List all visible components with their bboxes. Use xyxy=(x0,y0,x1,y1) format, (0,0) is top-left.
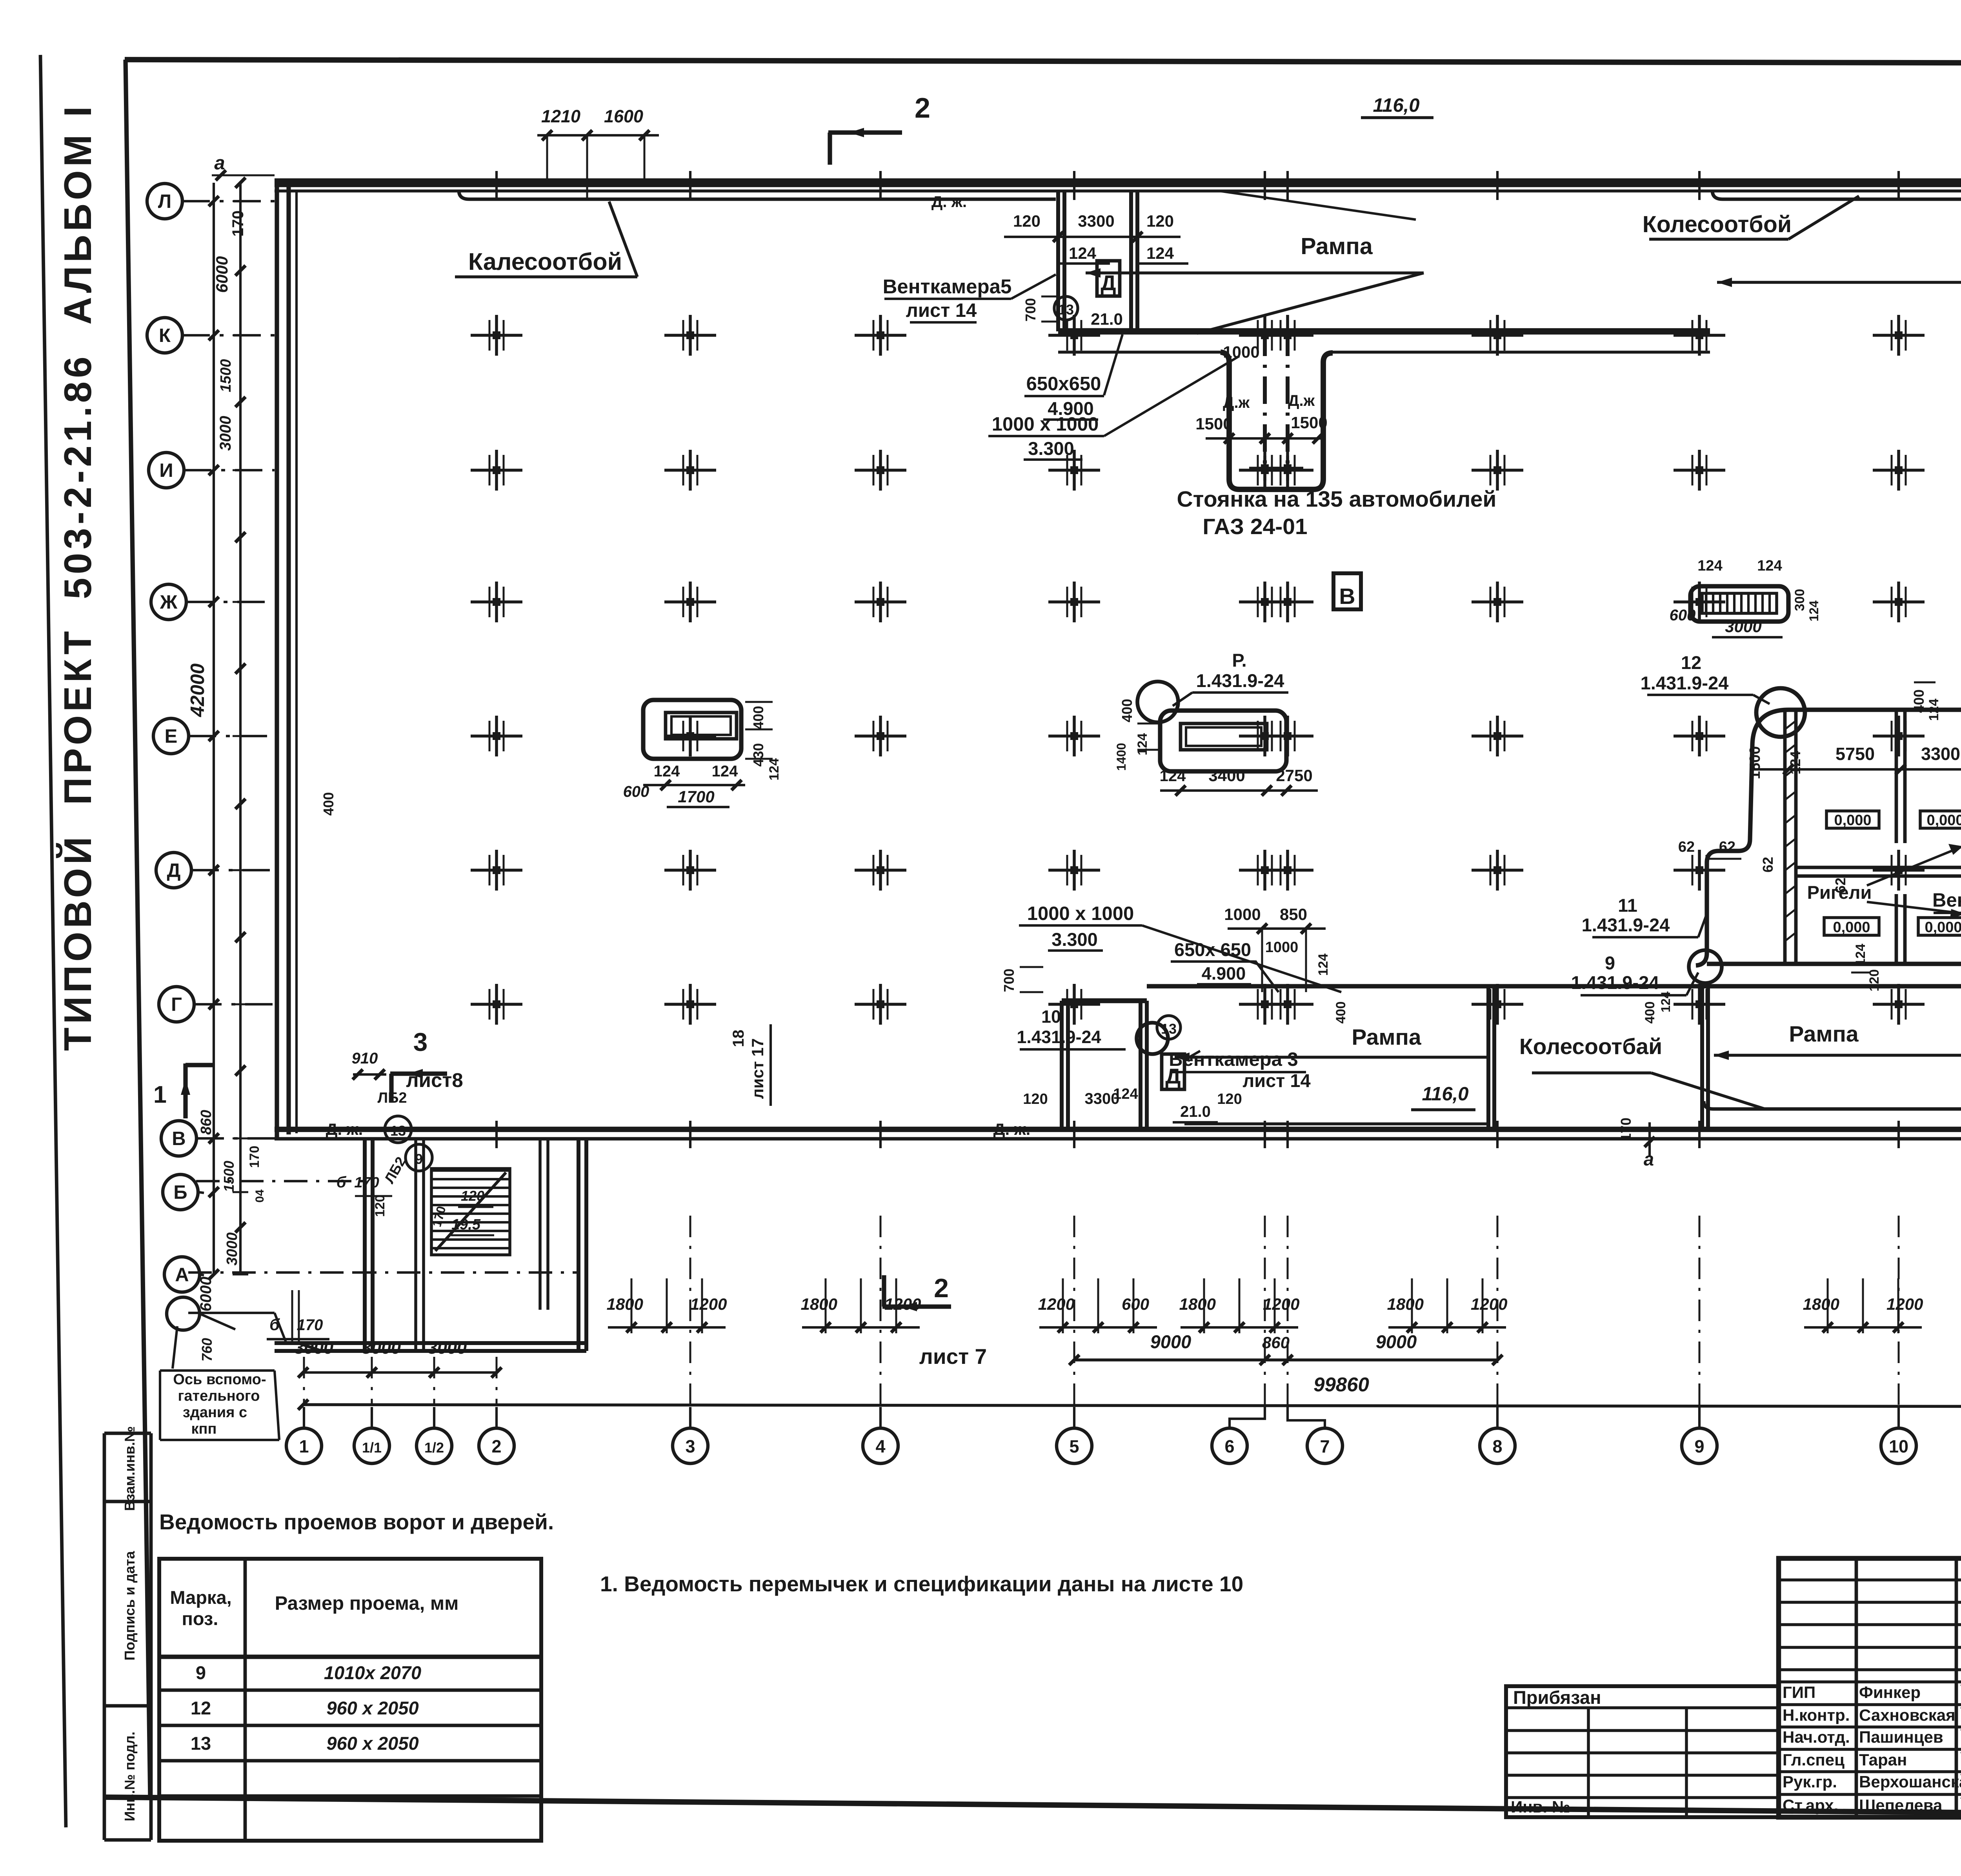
svg-text:4.900: 4.900 xyxy=(1202,963,1246,983)
svg-text:8: 8 xyxy=(1492,1436,1502,1456)
wheel guard line bottom xyxy=(1184,1101,1961,1124)
svg-text:Колесоотбой: Колесоотбой xyxy=(1643,211,1792,237)
svg-text:1210: 1210 xyxy=(541,106,580,126)
note text xyxy=(600,1572,1243,1596)
circle 13 vk5 xyxy=(1054,296,1078,320)
svg-text:Инв.№ подл.: Инв.№ подл. xyxy=(122,1732,138,1821)
wheel guard line top-left xyxy=(459,191,1056,199)
svg-text:лист 7: лист 7 xyxy=(919,1344,987,1369)
svg-text:960 х 2050: 960 х 2050 xyxy=(326,1733,418,1754)
svg-text:0,000: 0,000 xyxy=(1925,919,1961,936)
svg-text:Взам.инв.№: Взам.инв.№ xyxy=(122,1426,138,1511)
axis circle И left xyxy=(149,453,275,488)
bottom axis circles xyxy=(286,1428,1961,1463)
title block grid xyxy=(1779,1558,1961,1817)
svg-text:1200: 1200 xyxy=(1263,1295,1299,1313)
openings table xyxy=(159,1559,541,1841)
svg-text:1/1: 1/1 xyxy=(362,1440,382,1456)
island 3 top mid-right xyxy=(1690,586,1788,622)
island 2 dims xyxy=(1114,699,1318,796)
axis circle К left xyxy=(147,318,275,353)
svg-text:1. Ведомость перемычек и спе: 1. Ведомость перемычек и спецификации да… xyxy=(600,1572,1243,1596)
svg-text:Венткамера5: Венткамера5 xyxy=(883,275,1012,298)
svg-text:12: 12 xyxy=(191,1698,211,1718)
svg-text:3000: 3000 xyxy=(427,1338,467,1358)
svg-text:1000 х 1000: 1000 х 1000 xyxy=(1027,903,1134,924)
riveli bottom wall xyxy=(1707,962,1961,966)
svg-text:21.0: 21.0 xyxy=(1180,1103,1211,1120)
svg-text:6000: 6000 xyxy=(197,1277,215,1312)
svg-text:700: 700 xyxy=(1001,969,1017,992)
left dim lines xyxy=(209,178,248,1280)
left annex bottom wall xyxy=(275,1343,586,1351)
ventkamera 3 walls xyxy=(1062,1001,1147,1129)
left annex stair hatch xyxy=(431,1169,510,1255)
svg-text:ГАЗ 24-01: ГАЗ 24-01 xyxy=(1202,514,1307,539)
long dim line level2 left xyxy=(1069,1331,1503,1365)
svg-text:1.431.9-24: 1.431.9-24 xyxy=(1641,673,1729,693)
svg-text:1.431.9-24: 1.431.9-24 xyxy=(1196,670,1284,691)
svg-text:Калесоотбой: Калесоотбой xyxy=(468,248,622,275)
dim 21.0 vk5 xyxy=(1082,310,1133,329)
svg-text:13: 13 xyxy=(1058,302,1074,318)
svg-text:18: 18 xyxy=(730,1030,747,1047)
svg-text:850: 850 xyxy=(1280,905,1307,923)
svg-text:170: 170 xyxy=(1618,1118,1634,1141)
shaft labels xyxy=(1195,343,1327,444)
riveli lower dims xyxy=(1851,944,1882,992)
svg-text:1800: 1800 xyxy=(1179,1295,1216,1313)
svg-text:1000: 1000 xyxy=(1265,939,1299,956)
svg-text:3000: 3000 xyxy=(362,1338,401,1358)
label Dzh bottom wall xyxy=(326,1120,1031,1138)
riveli circle 9-11 xyxy=(1689,950,1722,983)
svg-text:120: 120 xyxy=(373,1195,387,1217)
label Kolesootboy top-right xyxy=(1220,191,1859,239)
dim 116.0 bottom xyxy=(1411,1083,1475,1110)
svg-text:124: 124 xyxy=(1807,600,1821,622)
riveli label xyxy=(1807,844,1961,919)
dim cluster axis10 xyxy=(1803,1278,1923,1333)
svg-text:120: 120 xyxy=(1013,212,1041,230)
svg-text:Финкер: Финкер xyxy=(1859,1683,1921,1701)
bottom ramp arrow right xyxy=(1714,1022,1961,1060)
island 2 callout xyxy=(1137,650,1288,722)
rotated list17 label xyxy=(730,1024,771,1106)
dims 120-3300-120 vk5 xyxy=(1004,212,1181,242)
svg-text:ТИПОВОЙ ПРОЕКТ 503-2-21.86: ТИПОВОЙ ПРОЕКТ 503-2-21.86 АЛЬБОМ I xyxy=(56,103,99,1051)
svg-text:1500: 1500 xyxy=(1195,414,1232,433)
svg-text:В: В xyxy=(172,1128,186,1149)
ramp wall x3800 xyxy=(1488,986,1494,1129)
dims b 170 col1 xyxy=(267,1290,329,1345)
svg-text:124: 124 xyxy=(1160,767,1186,785)
svg-text:124: 124 xyxy=(1697,558,1722,574)
dim 116.0 top xyxy=(1361,95,1433,118)
svg-text:124: 124 xyxy=(654,763,680,780)
island 1 dims xyxy=(623,702,782,807)
svg-text:Д. ж.: Д. ж. xyxy=(993,1120,1031,1138)
svg-text:Д: Д xyxy=(167,860,181,881)
svg-text:Г: Г xyxy=(171,994,182,1015)
svg-text:Венткамера4: Венткамера4 xyxy=(1932,890,1961,911)
svg-text:1200: 1200 xyxy=(1471,1295,1507,1313)
attachment box xyxy=(1506,1686,1779,1817)
svg-text:860: 860 xyxy=(1262,1333,1290,1352)
label Rampa top-left xyxy=(1301,233,1373,259)
dim cluster axis5 xyxy=(1038,1278,1157,1333)
left stamp strip with rotated labels xyxy=(104,1426,151,1840)
svg-text:120: 120 xyxy=(1217,1091,1242,1107)
svg-text:1200: 1200 xyxy=(1038,1295,1075,1313)
svg-text:9000: 9000 xyxy=(1376,1331,1417,1352)
section mark 1 left xyxy=(153,1063,215,1118)
svg-text:3400: 3400 xyxy=(1208,766,1245,785)
svg-text:А: А xyxy=(175,1264,189,1285)
svg-text:Рампа: Рампа xyxy=(1301,233,1373,259)
svg-text:4: 4 xyxy=(875,1436,885,1456)
svg-text:400: 400 xyxy=(320,792,337,816)
axis circle Б left xyxy=(163,1174,204,1210)
svg-text:124: 124 xyxy=(1926,699,1941,721)
svg-text:124: 124 xyxy=(1135,733,1150,756)
axis B leader left xyxy=(196,1180,365,1182)
ramp arrow top-left xyxy=(1086,268,1424,333)
dim cluster axis3 xyxy=(607,1278,727,1333)
svg-text:400: 400 xyxy=(750,706,766,729)
svg-text:9: 9 xyxy=(1694,1436,1704,1456)
svg-text:910: 910 xyxy=(352,1050,378,1067)
svg-text:42000: 42000 xyxy=(187,664,208,717)
svg-text:300: 300 xyxy=(1792,589,1807,611)
svg-text:170: 170 xyxy=(297,1316,323,1334)
svg-text:Сахновская: Сахновская xyxy=(1859,1706,1956,1724)
svg-text:124: 124 xyxy=(1316,954,1331,976)
svg-text:Шепелева: Шепелева xyxy=(1859,1796,1943,1814)
svg-text:Рук.гр.: Рук.гр. xyxy=(1783,1772,1837,1791)
svg-text:10: 10 xyxy=(1041,1007,1061,1027)
svg-text:1200: 1200 xyxy=(1886,1295,1923,1313)
svg-text:400: 400 xyxy=(1911,689,1927,713)
svg-text:1400: 1400 xyxy=(1114,743,1128,771)
svg-text:1200: 1200 xyxy=(690,1295,727,1313)
svg-text:2: 2 xyxy=(915,93,930,124)
dim cluster axis4 xyxy=(801,1278,921,1333)
svg-text:2: 2 xyxy=(491,1436,501,1456)
riveli callout 11 xyxy=(1582,895,1707,937)
svg-text:13: 13 xyxy=(390,1123,406,1139)
svg-text:62: 62 xyxy=(1760,857,1776,873)
svg-text:5: 5 xyxy=(1069,1436,1079,1456)
svg-text:3000: 3000 xyxy=(217,416,234,451)
label Kolesootboy bottom xyxy=(1519,1034,1765,1109)
svg-text:170: 170 xyxy=(354,1174,379,1191)
axis circle В left xyxy=(161,1121,275,1156)
svg-text:Д. ж.: Д. ж. xyxy=(931,193,967,211)
svg-text:1600: 1600 xyxy=(604,106,643,126)
axis circle А left xyxy=(164,1257,204,1292)
riveli top dims xyxy=(1747,744,1961,779)
top wall inner face line xyxy=(275,189,1961,193)
svg-text:1000: 1000 xyxy=(1224,905,1261,923)
svg-text:116,0: 116,0 xyxy=(1422,1083,1469,1105)
svg-text:1/2: 1/2 xyxy=(424,1440,444,1456)
table heading xyxy=(159,1510,554,1534)
long dim line level3 xyxy=(298,1400,1961,1411)
svg-text:1800: 1800 xyxy=(607,1295,643,1313)
svg-text:лист8: лист8 xyxy=(406,1069,463,1091)
svg-text:124: 124 xyxy=(1853,944,1868,966)
svg-text:Рампа: Рампа xyxy=(1789,1022,1859,1047)
svg-text:Верхошанская: Верхошанская xyxy=(1859,1772,1961,1791)
vk3 callout 10 xyxy=(1017,1007,1168,1054)
svg-text:Нач.отд.: Нач.отд. xyxy=(1783,1728,1850,1746)
svg-text:Инв. №: Инв. № xyxy=(1511,1798,1570,1816)
wheel guard top-right xyxy=(1712,191,1961,199)
svg-text:Стоянка на 135 автомобилей: Стоянка на 135 автомобилей xyxy=(1177,487,1497,512)
island 3 dims xyxy=(1670,558,1821,637)
axis circle Е left xyxy=(153,718,275,754)
svg-text:К: К xyxy=(159,325,171,346)
section mark 2 top xyxy=(828,93,930,165)
svg-text:62: 62 xyxy=(1719,839,1735,855)
svg-text:лист 14: лист 14 xyxy=(906,300,977,321)
svg-text:1500: 1500 xyxy=(1747,746,1763,780)
svg-text:6: 6 xyxy=(1224,1436,1234,1456)
axis circle extra below A xyxy=(167,1297,235,1330)
dim 99860 label xyxy=(1313,1373,1369,1396)
svg-text:1500: 1500 xyxy=(218,359,234,393)
svg-text:В: В xyxy=(1339,584,1355,609)
svg-text:9: 9 xyxy=(415,1151,423,1167)
letter box V xyxy=(1333,573,1361,609)
svg-text:Ст.арх.: Ст.арх. xyxy=(1783,1796,1838,1814)
ramp strip lower thin line right part xyxy=(1330,351,1710,354)
svg-text:124: 124 xyxy=(767,758,782,781)
svg-text:1010х 2070: 1010х 2070 xyxy=(324,1662,421,1683)
svg-text:Р.: Р. xyxy=(1232,650,1246,671)
svg-text:400: 400 xyxy=(1643,1002,1657,1024)
svg-text:120: 120 xyxy=(461,1188,484,1204)
svg-text:170: 170 xyxy=(229,211,247,237)
sheet frame bottom border xyxy=(105,1797,1961,1818)
svg-text:Ось вспомо-: Ось вспомо- xyxy=(173,1371,266,1388)
svg-text:760: 760 xyxy=(199,1338,215,1362)
svg-text:1: 1 xyxy=(153,1081,167,1108)
svg-text:860: 860 xyxy=(198,1110,215,1134)
svg-text:0,000: 0,000 xyxy=(1834,812,1871,829)
svg-text:21.0: 21.0 xyxy=(1091,310,1123,328)
svg-text:1: 1 xyxy=(299,1436,309,1456)
bottom ramp top line xyxy=(1147,984,1961,988)
left margin vertical text xyxy=(56,103,99,1051)
sub-axis a top-left label xyxy=(212,153,275,236)
island 1 left xyxy=(643,700,741,759)
svg-text:1.431.9-24: 1.431.9-24 xyxy=(1582,914,1670,935)
section mark 2 bottom xyxy=(882,1273,987,1369)
svg-text:3300: 3300 xyxy=(1085,1090,1120,1107)
dim 700 vk3 xyxy=(1001,967,1043,992)
axis A1 dashline annex xyxy=(188,1313,286,1343)
section mark 3 xyxy=(352,1027,463,1103)
ramp strip bottom wall top-middle xyxy=(1058,328,1710,334)
axis A dashline xyxy=(188,1271,580,1274)
riveli inner wall vertical left xyxy=(1785,712,1796,964)
parking capacity text xyxy=(931,193,1497,539)
vk3 callout 1000x1000 xyxy=(1019,903,1341,992)
sheet frame top border xyxy=(125,60,1961,64)
letter box D vk5 xyxy=(1097,261,1120,296)
sheet frame left border xyxy=(126,60,150,1798)
svg-text:400: 400 xyxy=(1333,1002,1348,1024)
axis 7 line in shaft xyxy=(1272,329,1303,481)
svg-text:7: 7 xyxy=(1320,1436,1330,1456)
bottom axis leader stubs xyxy=(304,1407,1961,1428)
svg-text:170: 170 xyxy=(247,1146,262,1168)
axis circle Г left xyxy=(159,987,275,1022)
svg-text:Н.контр.: Н.контр. xyxy=(1783,1706,1850,1724)
axis circle Д left xyxy=(156,853,275,888)
svg-text:Марка,: Марка, xyxy=(170,1587,231,1608)
vk3 dims xyxy=(1023,1086,1242,1122)
sheet left trim line xyxy=(40,55,66,1827)
axis circle Ж left xyxy=(151,584,275,620)
svg-text:1200: 1200 xyxy=(884,1295,921,1313)
dim 170 bottom mid xyxy=(1618,1118,1634,1141)
svg-text:3000: 3000 xyxy=(1725,617,1761,636)
riveli inner wall horizontal xyxy=(1796,867,1961,876)
svg-text:Д. ж.: Д. ж. xyxy=(326,1120,363,1138)
svg-text:И: И xyxy=(159,460,173,481)
svg-text:13: 13 xyxy=(191,1733,211,1754)
svg-text:124: 124 xyxy=(712,763,738,780)
riveli 400-124 top xyxy=(1911,682,1941,721)
ventkamera 5 walls xyxy=(1058,191,1137,331)
left dim labels xyxy=(187,256,337,1362)
svg-text:Е: Е xyxy=(165,726,178,747)
dim cluster axis6-7 xyxy=(1179,1278,1300,1333)
bottom ramp arrow left xyxy=(1175,1025,1488,1062)
svg-text:11: 11 xyxy=(1618,895,1637,916)
svg-text:0,000: 0,000 xyxy=(1926,812,1961,829)
svg-text:120: 120 xyxy=(1023,1091,1048,1107)
svg-text:гательного: гательного xyxy=(178,1388,260,1404)
svg-text:9: 9 xyxy=(196,1662,206,1683)
svg-text:Колесоотбай: Колесоотбай xyxy=(1519,1034,1662,1059)
left annex small dims xyxy=(337,1174,494,1235)
riveli inner wall vertical mid xyxy=(1896,712,1905,965)
svg-text:кпп: кпп xyxy=(191,1421,217,1437)
svg-text:2: 2 xyxy=(934,1273,949,1303)
svg-text:0,000: 0,000 xyxy=(1833,919,1870,936)
svg-text:1800: 1800 xyxy=(1803,1295,1839,1313)
svg-text:9000: 9000 xyxy=(1150,1331,1192,1352)
vk3 circle 13 xyxy=(1157,1016,1181,1039)
dims 124 vk5 xyxy=(1059,244,1188,264)
svg-text:700: 700 xyxy=(1022,298,1039,322)
svg-text:960 х 2050: 960 х 2050 xyxy=(326,1698,418,1718)
ramp arrow top-right xyxy=(1717,243,1961,287)
axis 6 line in shaft xyxy=(1249,329,1281,481)
callout 1000x1000 top xyxy=(988,356,1239,460)
svg-text:5750: 5750 xyxy=(1835,744,1875,764)
svg-text:3000: 3000 xyxy=(224,1232,240,1266)
svg-text:650х650: 650х650 xyxy=(1026,373,1101,394)
svg-text:Д.ж: Д.ж xyxy=(1223,394,1250,411)
svg-text:Подпись и дата: Подпись и дата xyxy=(122,1551,138,1661)
svg-text:600: 600 xyxy=(1122,1295,1149,1313)
riveli level boxes xyxy=(1824,811,1961,936)
dim 700 vk5 xyxy=(1022,296,1059,322)
svg-text:здания с: здания с xyxy=(183,1404,247,1421)
svg-text:120: 120 xyxy=(1146,212,1174,230)
svg-text:Ж: Ж xyxy=(160,592,178,613)
svg-text:116,0: 116,0 xyxy=(1373,95,1420,116)
svg-text:19,5: 19,5 xyxy=(451,1216,481,1233)
axis dash verticals xyxy=(304,1216,1961,1405)
svg-text:62: 62 xyxy=(1678,839,1695,855)
svg-text:1000: 1000 xyxy=(1223,343,1259,361)
svg-text:Таран: Таран xyxy=(1859,1751,1907,1769)
vk3 labels xyxy=(1162,1049,1311,1091)
svg-text:Гл.спец: Гл.спец xyxy=(1783,1751,1845,1769)
riveli dims 62 xyxy=(1678,839,1848,893)
dims 3000x3 left xyxy=(294,1338,502,1378)
svg-text:1800: 1800 xyxy=(1387,1295,1424,1313)
svg-text:Пашинцев: Пашинцев xyxy=(1859,1728,1943,1746)
column grid crosses xyxy=(471,315,1961,1025)
dims 1000 850 xyxy=(1224,905,1331,992)
svg-text:Прибязан: Прибязан xyxy=(1513,1687,1601,1708)
svg-text:124: 124 xyxy=(1757,558,1782,574)
title signatures xyxy=(1783,1683,1961,1814)
svg-text:1500: 1500 xyxy=(1291,413,1327,432)
svg-text:1.431.9-24: 1.431.9-24 xyxy=(1571,972,1659,993)
svg-text:3300: 3300 xyxy=(1078,212,1114,230)
svg-text:99860: 99860 xyxy=(1313,1373,1369,1396)
svg-text:3000: 3000 xyxy=(294,1338,333,1358)
svg-text:124: 124 xyxy=(1146,244,1174,262)
vk3 callout 650x650 xyxy=(1171,939,1279,992)
callout 650x650 top xyxy=(1024,334,1122,420)
svg-text:1800: 1800 xyxy=(801,1295,837,1313)
svg-text:1.431.9-24: 1.431.9-24 xyxy=(1017,1027,1101,1047)
riveli outer walls xyxy=(1696,710,1961,992)
svg-text:124: 124 xyxy=(1787,751,1803,774)
left annex circles xyxy=(377,1090,432,1186)
svg-text:400: 400 xyxy=(1119,699,1135,722)
dims 400 bottom xyxy=(1333,991,1673,1023)
down ramp shaft U walls xyxy=(1221,352,1333,489)
svg-text:Ведомость проемов ворот и двер: Ведомость проемов ворот и дверей. xyxy=(159,1510,554,1534)
riveli callout 9 xyxy=(1571,953,1698,995)
ramp wall x4350 xyxy=(1702,986,1708,1129)
svg-text:Венткамера 3: Венткамера 3 xyxy=(1169,1049,1298,1070)
label ventkamera5 xyxy=(883,274,1056,322)
svg-text:б: б xyxy=(269,1315,280,1334)
svg-text:Л: Л xyxy=(158,191,171,212)
axis circle Л left xyxy=(147,184,275,219)
svg-text:124: 124 xyxy=(1069,244,1097,262)
svg-text:1500: 1500 xyxy=(221,1161,237,1192)
label ventkamera4 xyxy=(1932,890,1961,1004)
svg-text:3: 3 xyxy=(685,1436,695,1456)
label Kolesootboy top-left xyxy=(455,202,637,277)
svg-text:04: 04 xyxy=(253,1189,266,1203)
svg-text:лист 17: лист 17 xyxy=(748,1038,767,1099)
svg-text:3300: 3300 xyxy=(1921,744,1960,764)
svg-text:1000 х 1000: 1000 х 1000 xyxy=(992,414,1099,435)
